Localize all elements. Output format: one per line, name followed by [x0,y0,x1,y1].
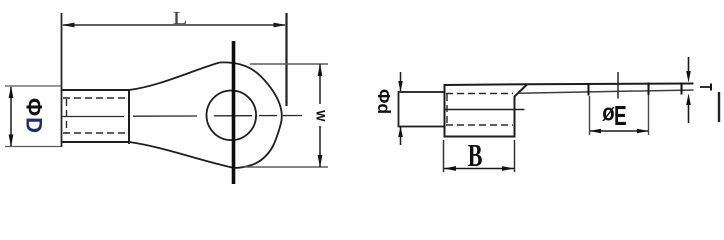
wire: W bottom extension line [244,166,328,168]
label oE [602,99,626,132]
wire: horizontal centerline [62,116,302,117]
wire: bore hidden dashed lines [63,98,129,133]
wire: T dimension bottom arrow [688,103,690,123]
wire: L right extension line [285,13,287,106]
svg-text:ΦD: ΦD [22,98,47,133]
svg-text:L: L [173,8,188,28]
wire: stray edge mark [718,92,720,122]
svg-text:E: E [614,102,627,132]
label T (rotated) [695,83,715,90]
wire: PhiD top extension line [5,85,61,87]
node: crimp block outline [445,84,528,138]
wire: tongue top line [527,83,694,86]
label PhiD (rotated) [22,98,47,133]
wire: tongue bottom line [518,90,694,93]
wire: T dimension top arrow [688,57,690,73]
node: ring inner circle (hole) [207,91,257,141]
wire: B extension lines [443,140,445,172]
label Phi-d (rotated) [374,89,394,114]
wire: PhiD bottom extension line [5,146,61,148]
svg-text:Φd: Φd [374,89,394,114]
svg-text:W: W [313,110,327,122]
wire: L dimension line [63,24,285,26]
wire: block mid line [445,109,525,111]
wire: L left extension line / barrel mouth edge [61,13,63,147]
wire: W dimension line [319,64,321,104]
node: hole edge tick right [648,83,650,96]
wire: bottom flare curve [129,142,234,168]
node: barrel outline [61,89,129,144]
wire: W top extension line [250,63,328,65]
wire: block bore dashed lines [446,94,513,126]
wire: Phi-d dimension line with arrows [400,72,402,91]
arrowheads of W [318,64,323,167]
svg-text:B: B [468,138,483,173]
wire: thick vertical section line [232,41,236,184]
wire: hole centerline [617,72,619,99]
wire: oE dimension line [590,130,648,132]
wire: top flare curve [129,63,220,91]
node: hole edge tick left [588,83,590,96]
svg-text:ø: ø [602,99,615,126]
label W (rotated) [313,110,327,122]
wire: PhiD dimension line [10,87,12,146]
node: pad edge tick [681,83,683,95]
node: ring outer circle [220,62,282,167]
svg-text:T: T [695,83,715,90]
arrowheads of PhiD [9,86,14,147]
wire: oE extension lines [589,96,591,135]
node: mouth rectangle [399,92,445,127]
wire: B dimension line [444,168,514,170]
arrowheads of L dimension [62,23,287,28]
